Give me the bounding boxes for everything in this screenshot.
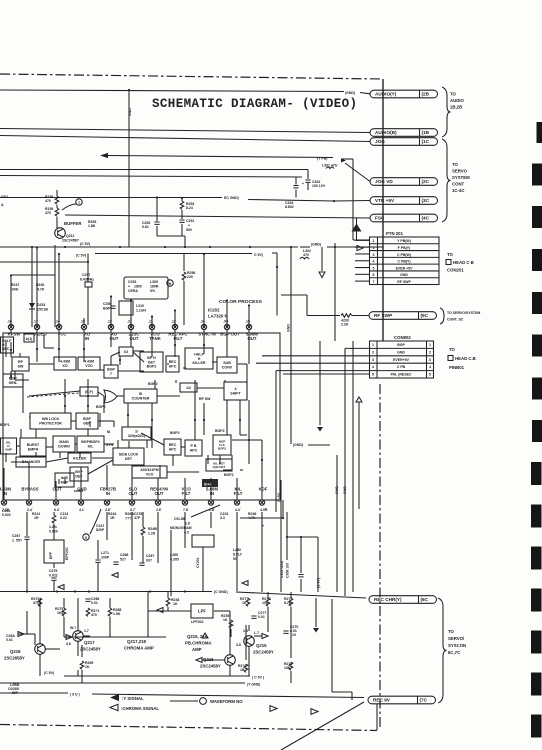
wire IC internal mesh 2 — [14, 371, 16, 380]
svg-text:0.22: 0.22 — [60, 516, 67, 520]
block BVP DET — [70, 467, 88, 481]
svg-text:3: 3 — [373, 253, 375, 257]
film sprocket bar 13 — [531, 631, 542, 654]
svg-text:TO: TO — [452, 162, 459, 167]
block ID+B dark — [202, 479, 218, 487]
svg-text:(5C: (5C — [421, 313, 429, 318]
component trap box — [192, 535, 214, 547]
block KIL D AMP — [1, 438, 17, 454]
transistor Q211 2SC2458Y — [55, 228, 66, 239]
svg-text:RF SWP: RF SWP — [397, 280, 411, 284]
svg-text:3: 3 — [372, 358, 374, 362]
wire PTN vertical feeds — [352, 159, 354, 240]
svg-text:3.8: 3.8 — [236, 643, 241, 647]
resistor R276 15K — [289, 662, 293, 670]
filter BPF201 — [44, 540, 64, 563]
svg-text:BGP OUT: BGP OUT — [220, 332, 240, 337]
svg-text:(GND): (GND) — [293, 443, 303, 447]
svg-text:(6C: (6C — [421, 597, 429, 602]
film sprocket bar 12 — [531, 589, 542, 612]
arrow diode b — [262, 634, 268, 639]
svg-text:.: . — [110, 506, 111, 510]
svg-text:(7C: (7C — [420, 698, 428, 703]
svg-text:CERA: CERA — [128, 289, 138, 293]
transistor Q216 2SC2458Y — [225, 655, 236, 666]
block BGP 7 — [104, 365, 118, 378]
block HALF H REC — [1, 337, 14, 353]
svg-text:1: 1 — [372, 343, 374, 347]
svg-text:GND: GND — [335, 486, 339, 494]
svg-text:C275: C275 — [49, 569, 57, 573]
svg-text:1K: 1K — [85, 665, 90, 669]
svg-text:KDF: KDF — [259, 487, 268, 492]
svg-text:470: 470 — [45, 199, 51, 203]
pin OUT (IC202 bottom) — [53, 500, 58, 505]
capacitor C253 1800 CERA — [124, 277, 168, 299]
svg-text:7: 7 — [373, 280, 375, 284]
svg-text:8.9LY: 8.9LY — [233, 553, 243, 557]
svg-text:0.022: 0.022 — [49, 574, 58, 578]
svg-text:W.?: W.? — [70, 626, 76, 630]
svg-text:BGP1: BGP1 — [0, 423, 10, 427]
svg-text:SYSTEM: SYSTEM — [452, 175, 470, 180]
block REC APC small — [166, 356, 179, 372]
svg-text:+: + — [188, 224, 190, 228]
svg-text:C0L3B: C0L3B — [174, 517, 186, 521]
svg-text:SYSCON: SYSCON — [448, 643, 466, 648]
svg-text:CONT: CONT — [452, 182, 465, 187]
svg-text:EC GND): EC GND) — [224, 196, 239, 200]
svg-text:KIL: KIL — [88, 444, 95, 448]
svg-text:EMPH: EMPH — [28, 447, 39, 451]
block SHIFT — [224, 382, 247, 400]
svg-text:GND: GND — [397, 350, 405, 354]
svg-text:2.2K: 2.2K — [341, 323, 349, 327]
svg-text:0.01: 0.01 — [258, 615, 265, 619]
block BGP H S BGP2 — [213, 435, 231, 455]
svg-text:15C1B: 15C1B — [37, 308, 48, 312]
svg-text:(C 5V): (C 5V) — [44, 671, 54, 675]
svg-text:2SC2658Y: 2SC2658Y — [4, 656, 25, 661]
svg-text:1: 1 — [12, 539, 14, 543]
block P B APC — [185, 440, 202, 456]
capacitor C251 50V — [181, 210, 183, 219]
svg-text:1.2%: 1.2% — [49, 525, 58, 529]
brace to servo system — [442, 139, 451, 222]
svg-text:L271: L271 — [101, 551, 109, 555]
film sprocket bar 9 — [531, 462, 542, 485]
capacitor C266 0.01 — [85, 599, 90, 601]
block MAIN DOWN — [53, 436, 75, 452]
svg-text:L301 47U: L301 47U — [322, 164, 338, 168]
svg-text:CONT. SC: CONT. SC — [447, 318, 464, 322]
block BGP GEN — [76, 413, 98, 429]
filter LPF202 — [191, 604, 213, 618]
svg-text:AMP: AMP — [192, 647, 202, 652]
wire Y GND bus bottom — [0, 682, 245, 684]
wire buffer branch — [56, 190, 58, 196]
transistor Q217 2SC2458Y — [73, 631, 84, 642]
film sprocket bar 14 — [531, 673, 542, 696]
pin SLD OUT (IC202 bottom) — [129, 500, 134, 505]
svg-text:LA7320 N: LA7320 N — [208, 314, 228, 319]
svg-text::Y SIGNAL: :Y SIGNAL — [122, 696, 144, 701]
svg-text:HEAD C B: HEAD C B — [453, 260, 474, 265]
block KIL DET ID DET — [206, 459, 232, 471]
wire x301 branch with cap — [300, 537, 302, 573]
block HALF H KILLER — [185, 348, 213, 369]
film sprocket bar 11 — [531, 547, 542, 570]
film sprocket bar 4 — [532, 249, 542, 271]
wire vertical x276 down — [275, 371, 277, 512]
svg-text:R24B: R24B — [148, 527, 157, 531]
svg-text:0.61: 0.61 — [142, 225, 149, 229]
svg-text:TO: TO — [450, 92, 457, 97]
pin REC4?M OUT (IC202 bottom) — [155, 500, 160, 505]
svg-text:1.1UH: 1.1UH — [136, 309, 146, 313]
wire C252/C251 to gnd bus — [157, 235, 185, 237]
inductor L310 1.1UH box — [119, 301, 133, 315]
svg-text:TANK: TANK — [149, 336, 162, 341]
block H/B LOCK PROTECTOR — [30, 413, 71, 429]
wire vtr5v bus — [0, 176, 302, 178]
svg-text:1.8: 1.8 — [185, 522, 190, 526]
pin 13 XO OUT (IC202 top) — [108, 324, 113, 329]
pin 17 VIDEO (IC202 top) — [34, 324, 39, 329]
connector VTR +5V (3C) — [370, 197, 438, 205]
transistor Q215 2SC2458Y — [244, 636, 255, 647]
wire C5V bus bottom — [64, 675, 250, 677]
pin 16 RFSW (IC202 top) — [8, 324, 13, 329]
arrow diode e — [58, 585, 64, 590]
block PSIP GEN — [3, 374, 23, 387]
svg-text:SERVO: SERVO — [452, 169, 468, 174]
svg-text:SCHEMATIC DIAGRAM- (VIDEO): SCHEMATIC DIAGRAM- (VIDEO) — [152, 97, 357, 111]
svg-text:FILT: FILT — [182, 491, 191, 496]
arrow triangle up x359 — [356, 397, 362, 402]
svg-text:(E.F): (E.F) — [85, 390, 94, 394]
svg-text:DET: DET — [75, 474, 83, 478]
svg-text:2: 2 — [429, 350, 431, 354]
svg-text:5: 5 — [373, 266, 375, 270]
svg-text:LPF202: LPF202 — [191, 620, 204, 624]
svg-text:CY201: CY201 — [196, 557, 200, 568]
block REC APC 2 — [164, 439, 181, 455]
svg-text:JOG: JOG — [375, 139, 385, 144]
svg-text:(1C: (1C — [422, 139, 430, 144]
svg-text:EVER+5V: EVER+5V — [393, 358, 410, 362]
svg-text:BGP2: BGP2 — [215, 429, 225, 433]
wire video bus 3 — [0, 169, 308, 171]
pin 11 VCO TANK (IC202 top) — [149, 324, 154, 329]
ground arrow mid x320 — [319, 341, 321, 425]
wire GND bus to AUDIO(Y) — [0, 90, 344, 92]
svg-text:15K: 15K — [284, 666, 291, 670]
resistor R269 1K — [80, 661, 84, 669]
svg-text:(C 5V): (C 5V) — [76, 254, 86, 258]
svg-text:FILT: FILT — [234, 491, 243, 496]
legend open arrow right b — [311, 709, 318, 715]
svg-text:1.8K: 1.8K — [88, 224, 96, 228]
svg-text:7: 7 — [110, 372, 112, 376]
svg-text:GND: GND — [400, 273, 408, 277]
pin VCO FILT (IC202 bottom) — [182, 500, 187, 505]
svg-text:8.2K: 8.2K — [284, 601, 292, 605]
svg-text:EVER +5V: EVER +5V — [396, 266, 413, 270]
film sprocket bar 5 — [532, 292, 542, 314]
svg-text:50V: 50V — [186, 228, 193, 232]
block 320/321FM VCO — [132, 466, 167, 478]
svg-text:1K8: 1K8 — [57, 611, 63, 615]
svg-text:GND: GND — [128, 108, 132, 116]
block 8dB AMP — [55, 473, 74, 487]
ground symbol near top — [321, 247, 323, 271]
svg-text:0.022: 0.022 — [2, 513, 11, 517]
connector JOG (1C) — [370, 138, 438, 146]
resistor R277 1K — [246, 598, 250, 606]
svg-text:COLOR PROCESS: COLOR PROCESS — [219, 299, 263, 305]
arrow diode f — [112, 573, 118, 578]
svg-text:.: . — [240, 506, 241, 510]
svg-text:5%: 5% — [150, 289, 156, 293]
svg-text:BUFFER: BUFFER — [64, 221, 82, 226]
resistor R254 8.24 — [181, 197, 183, 199]
wire 9V bus — [0, 692, 68, 694]
connector AUDIO(Y) (2B) — [370, 90, 438, 98]
wire 5V corner at x277 — [272, 252, 277, 254]
svg-text:1.7: 1.7 — [84, 629, 89, 633]
block 1/2 — [180, 383, 197, 392]
svg-text:REC 9V: REC 9V — [373, 698, 391, 703]
resistor R159 470 — [55, 208, 59, 216]
svg-text:2.6: 2.6 — [156, 508, 161, 512]
svg-text:C256: C256 — [103, 302, 111, 306]
svg-text:1K: 1K — [173, 602, 178, 606]
svg-text:LPF: LPF — [198, 608, 206, 613]
svg-text:L.7: L.7 — [254, 631, 259, 635]
pin BYPASS (IC202 bottom) — [26, 500, 31, 505]
svg-text:H: H — [169, 282, 172, 286]
block E.F — [80, 387, 98, 396]
svg-text:820P: 820P — [96, 528, 105, 532]
svg-text:GEN.: GEN. — [9, 381, 18, 385]
legend Y SIGNAL arrow — [110, 694, 119, 701]
svg-text:BGP: BGP — [103, 307, 111, 311]
ground arrow x316 — [313, 628, 319, 633]
pin 14 VCC (IC202 top) — [56, 324, 61, 329]
connector JOG VD (2C) — [370, 178, 438, 186]
curve from waveform H — [90, 509, 101, 534]
svg-text:D251: D251 — [37, 303, 45, 307]
connector REC 9V (7C) — [368, 696, 436, 704]
svg-text:PTN 201: PTN 201 — [386, 231, 404, 236]
node waveform ref H — [167, 280, 173, 286]
svg-text:1R: 1R — [110, 516, 115, 520]
svg-text:+: + — [128, 285, 130, 289]
svg-text:470: 470 — [33, 601, 39, 605]
svg-text:DOWN: DOWN — [58, 444, 70, 448]
svg-text:1: 1 — [429, 343, 431, 347]
wire vert x377 below pill — [376, 704, 378, 730]
svg-text:8.802: 8.802 — [285, 205, 294, 209]
film sprocket bar 6 — [532, 335, 542, 357]
svg-text:2SC2458Y: 2SC2458Y — [200, 664, 221, 669]
resistor R266 — [244, 664, 248, 672]
pin 15 5.06M OUT (IC202 top) — [246, 324, 251, 329]
svg-text:0.01: 0.01 — [6, 638, 13, 642]
svg-text:KILLER: KILLER — [193, 361, 206, 365]
block X2 — [119, 347, 133, 356]
film sprocket bar 1 — [537, 122, 542, 143]
svg-text:RF SWP: RF SWP — [374, 313, 392, 318]
pin FB627B IN (IC202 bottom) — [104, 500, 109, 505]
wire diagonal near trap — [191, 505, 220, 517]
svg-text:PB.CHROMA: PB.CHROMA — [185, 641, 212, 646]
svg-text:M.: M. — [107, 430, 111, 434]
svg-text:OUT: OUT — [128, 491, 137, 496]
svg-text:HEAD C.B: HEAD C.B — [455, 356, 476, 361]
svg-text:BGP: BGP — [397, 343, 405, 347]
film sprocket bar 7 — [532, 378, 542, 400]
page boundary dash-dot bottom — [0, 725, 377, 731]
wire verticals below IC — [131, 512, 133, 560]
pin 4.43M IN (IC202 bottom) — [1, 500, 6, 505]
block BURST EMPH — [20, 438, 46, 456]
svg-text:VZO: VZO — [85, 364, 93, 368]
svg-text:AUDIO(Y): AUDIO(Y) — [375, 92, 397, 97]
resistor R271 470 — [86, 608, 90, 616]
svg-text:470: 470 — [45, 211, 51, 215]
svg-text:L309: L309 — [150, 280, 158, 284]
svg-text:4.1: 4.1 — [79, 508, 84, 512]
page boundary dash-dot right — [379, 384, 381, 730]
block A1 latch — [24, 334, 34, 342]
svg-text:MONOGRAM: MONOGRAM — [170, 526, 192, 530]
svg-text:PAL (NESEC: PAL (NESEC — [391, 373, 412, 377]
svg-text:GND: GND — [343, 486, 347, 494]
svg-text:IC202: IC202 — [208, 308, 220, 313]
svg-text:55?: 55? — [16, 539, 22, 543]
page boundary dash-dot top — [0, 74, 383, 79]
svg-text:47P: 47P — [134, 516, 141, 520]
ground triangle x205 — [202, 633, 208, 638]
wire rf-swp feed — [281, 294, 307, 296]
op-amp IC202 LA7320 body — [3, 333, 280, 500]
svg-text:4.3: 4.3 — [235, 508, 240, 512]
brace to servo/system cont 5C — [440, 308, 444, 324]
resistor R268 1.5K — [108, 608, 112, 616]
svg-text:.: . — [32, 506, 33, 510]
svg-text:1.2K: 1.2K — [148, 532, 156, 536]
svg-text:(Y GND): (Y GND) — [247, 683, 260, 687]
svg-text:0.01: 0.01 — [91, 601, 98, 605]
svg-text:C PB(W): C PB(W) — [397, 253, 411, 257]
resistor R248 — [166, 598, 170, 606]
wire y537 link — [287, 536, 318, 538]
wire jog bus — [0, 136, 370, 142]
svg-text:BGP2: BGP2 — [96, 405, 106, 409]
svg-text:1K: 1K — [242, 601, 247, 605]
svg-text:COUNTER: COUNTER — [132, 396, 150, 400]
svg-text:.: . — [135, 506, 136, 510]
wire vertical gnd branch x291 — [290, 247, 292, 444]
svg-text:5: 5 — [429, 373, 431, 377]
resistor R275 1K8 — [62, 608, 66, 616]
svg-text:JOG VD: JOG VD — [375, 179, 393, 184]
svg-text:RFSW: RFSW — [8, 332, 22, 337]
svg-text:1K: 1K — [223, 618, 228, 622]
svg-text:C303 GND: C303 GND — [280, 560, 284, 578]
capacitor C334 8.802 — [295, 177, 297, 185]
svg-text:(4C: (4C — [422, 216, 430, 221]
arrow diode d — [196, 658, 202, 663]
svg-text:(GND): (GND) — [345, 91, 355, 95]
arrow diode g — [242, 581, 248, 586]
wire FSC line — [65, 215, 370, 218]
svg-text:C PB: C PB — [397, 365, 406, 369]
wire audio-B bus — [0, 129, 370, 133]
svg-text:R247: R247 — [11, 283, 19, 287]
pin 5.06M IN (IC202 bottom) — [208, 500, 213, 505]
svg-text:PROTECTOR: PROTECTOR — [39, 421, 62, 425]
node waveform ref 9 — [83, 534, 89, 540]
svg-text:GD?: GD? — [1, 195, 8, 199]
svg-text:BYPASS: BYPASS — [21, 487, 38, 492]
svg-text:3: 3 — [429, 358, 431, 362]
svg-text:PINB01: PINB01 — [449, 365, 465, 370]
wire vertical x353 — [352, 341, 354, 592]
crystal CY201 — [202, 547, 204, 591]
wire GND drop from top bus — [128, 90, 130, 247]
svg-text:VTR +5V: VTR +5V — [375, 198, 395, 203]
svg-text:100: 100 — [262, 601, 268, 605]
wire PTN201 row stubs — [355, 239, 370, 241]
svg-text:VCO: VCO — [146, 472, 154, 476]
resistor R256 220 — [183, 254, 185, 272]
svg-text:470: 470 — [303, 253, 309, 257]
wire slant to rec9v — [281, 702, 364, 750]
node waveform ref (1) — [76, 199, 82, 205]
svg-text:SERVO/: SERVO/ — [448, 636, 465, 641]
svg-text:SW: SW — [18, 364, 24, 368]
svg-text:C308 100: C308 100 — [286, 563, 290, 578]
block 4.43M XO — [54, 357, 76, 370]
svg-text:(C 5V): (C 5V) — [80, 242, 90, 246]
connector AUDIO(B) (1B) — [370, 129, 438, 137]
svg-text:1C-4C: 1C-4C — [452, 188, 464, 193]
svg-text:SHIFT: SHIFT — [230, 391, 241, 395]
svg-text:220: 220 — [187, 275, 193, 279]
wire 5V bus y253 — [95, 253, 252, 255]
svg-text:3.3: 3.3 — [220, 516, 225, 520]
svg-text:.: . — [59, 506, 60, 510]
svg-text:BPF: BPF — [49, 551, 53, 559]
svg-text:1800: 1800 — [134, 285, 142, 289]
block SUB CONV — [217, 357, 237, 373]
wire vertical x345 con802 — [344, 348, 346, 596]
svg-text:3.6: 3.6 — [66, 642, 71, 646]
svg-text:BPF201: BPF201 — [65, 547, 69, 560]
svg-text:OUT: OUT — [154, 491, 163, 496]
resistor R240 4.7K — [31, 248, 33, 327]
svg-text:(C GND): (C GND) — [214, 590, 228, 594]
arrow into PTN201 row2 — [357, 245, 363, 250]
legend chroma signal arrow — [110, 704, 118, 710]
svg-text:4.9R: 4.9R — [260, 508, 268, 512]
svg-text:1: 1 — [373, 239, 375, 243]
svg-text:+: + — [302, 182, 304, 186]
pin 12 REC APC FILT (IC202 top) — [172, 324, 177, 329]
